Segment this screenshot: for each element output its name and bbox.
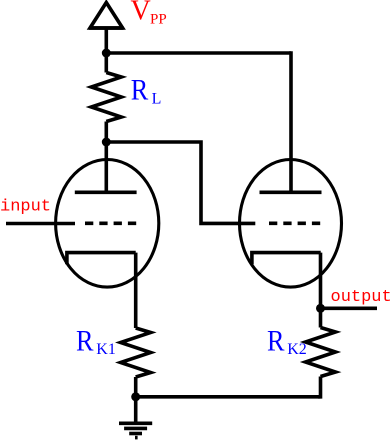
tube V2 grid (dashed) [269,222,321,226]
tube V2 cathode [252,253,321,265]
resistor R_K1 [121,328,151,377]
node A junction dot [102,49,111,58]
wire: input lead [6,222,75,226]
svg-text:R: R [267,325,285,358]
tube V1 grid (dashed) [85,222,137,226]
wire: right plate drop [289,51,293,192]
wire: V1 cathode lead down to R_K1 [134,253,138,328]
node C junction dot (ground node) [131,392,140,401]
wire: R_K1 bottom lead to node C [134,377,138,397]
node B junction dot [102,138,111,147]
svg-text:R: R [131,74,149,107]
tube V2 plate [260,191,322,195]
tube V1 plate [75,191,137,195]
label R_L [131,74,162,108]
svg-text:L: L [152,90,162,107]
wire: ground stem [134,397,138,424]
svg-text:input: input [0,198,51,217]
resistor R_L [91,73,121,122]
wire: output lead [321,306,378,310]
wire: V2 cathode lead down through output node to R_K2 [319,253,323,328]
wire: bottom rail from node C to R_K2 [136,395,321,399]
wire: top rail from node A to right tube plate drop [106,51,291,55]
wire: coupling from node B to right tube grid [106,142,255,223]
resistor R_K2 [306,328,336,377]
power supply V_PP symbol (open triangle) [89,3,124,29]
svg-text:V: V [131,0,151,26]
label R_K2 [267,325,307,358]
wire: supply stem from triangle to R_L top [105,28,109,73]
wire: R_L bottom to left tube plate [105,122,109,193]
label V_PP [131,0,167,28]
svg-text:PP: PP [150,12,167,28]
node D junction dot (output node) [316,304,325,313]
tube V1 envelope [56,160,159,288]
label R_K1 [76,325,116,358]
svg-text:R: R [76,325,94,358]
wire: R_K2 bottom lead to bottom rail [318,377,321,397]
ground symbol [119,423,152,437]
tube V1 cathode [67,253,136,265]
svg-text:K2: K2 [287,341,307,358]
svg-text:output: output [331,288,392,307]
svg-text:K1: K1 [96,341,116,358]
tube V2 envelope [240,160,342,288]
